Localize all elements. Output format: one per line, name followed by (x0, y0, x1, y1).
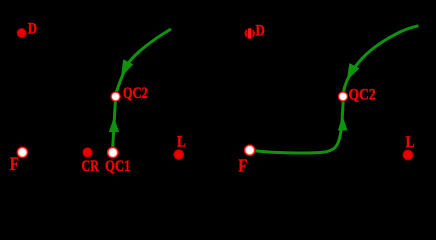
arrowhead up on QC1-QC2 line (109, 117, 119, 132)
label CR (82, 158, 100, 175)
node F (left panel, open dot) (16, 146, 28, 158)
arrowhead down-left toward QC2 on right upper curve (347, 63, 360, 81)
svg-text:D: D (28, 21, 37, 38)
node QC2 (right panel, open dot) (338, 91, 349, 102)
svg-text:L: L (177, 133, 186, 150)
node QC1 (open dot) (107, 147, 119, 159)
arrowhead up below right QC2 (338, 116, 348, 131)
node QC2 (left panel, open dot) (110, 91, 121, 102)
node F (right panel, open dot) (244, 144, 256, 156)
wire: left flow line QC1 to QC2 (vertical) (113, 97, 116, 150)
label D (left) (28, 21, 37, 38)
label QC1 (105, 158, 131, 175)
svg-text:L: L (406, 134, 415, 151)
wire: right flow curve F to QC2 (255, 101, 343, 153)
label L (left) (177, 133, 186, 150)
label D (right) (256, 23, 265, 40)
label F (left) (10, 154, 19, 175)
node D (left panel, filled dot) (17, 28, 27, 38)
node D (right panel, striped dot) (245, 27, 255, 40)
label F (right) (238, 156, 247, 176)
label QC2 (right) (349, 86, 376, 103)
svg-text:F: F (10, 154, 19, 175)
svg-text:QC1: QC1 (105, 158, 131, 175)
svg-text:QC2: QC2 (123, 85, 148, 102)
svg-text:F: F (238, 156, 247, 176)
arrowhead down-left toward QC2 on left upper curve (121, 59, 133, 77)
wire: right flow curve QC2 to upper right (344, 26, 419, 92)
wire: left flow curve QC2 to upper right (116, 29, 171, 93)
svg-text:CR: CR (82, 158, 100, 175)
node L (left panel, filled dot) (173, 149, 184, 160)
label QC2 (left) (123, 85, 148, 102)
label L (right) (406, 134, 415, 151)
svg-text:QC2: QC2 (349, 86, 376, 103)
svg-text:D: D (256, 23, 265, 40)
node CR (filled dot) (82, 147, 92, 157)
node L (right panel, filled dot) (403, 150, 414, 161)
